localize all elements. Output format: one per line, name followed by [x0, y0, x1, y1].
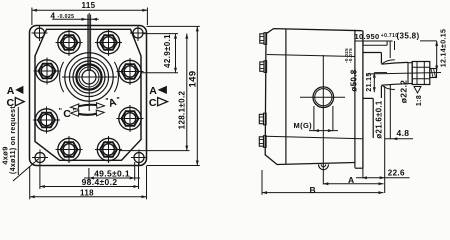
- svg-text:1:8: 1:8: [416, 95, 423, 106]
- drain plug: [319, 164, 329, 169]
- svg-text:": ": [59, 108, 63, 115]
- key slot lines: [87, 15, 89, 72]
- svg-text:A: A: [7, 85, 15, 97]
- svg-text:C: C: [149, 97, 157, 109]
- svg-text:128.1±0.2: 128.1±0.2: [178, 90, 187, 129]
- svg-text:": ": [73, 109, 77, 116]
- dim 49.5: [88, 168, 90, 181]
- svg-text:4xø9: 4xø9: [1, 146, 10, 165]
- pilot boss o50.8: [363, 53, 381, 139]
- housing octagon: [35, 29, 141, 160]
- svg-text:98.4±0.2: 98.4±0.2: [82, 177, 118, 187]
- housing chamfer line lower: [266, 136, 363, 139]
- bolt left-upper: [34, 58, 61, 85]
- svg-text:C: C: [63, 108, 71, 120]
- svg-text:4.8: 4.8: [397, 128, 410, 138]
- svg-text:149: 149: [187, 71, 198, 88]
- leader to corner hole: [13, 159, 39, 182]
- svg-text:A: A: [149, 85, 157, 97]
- side bolt 4: [259, 136, 266, 148]
- dim 98.4: [39, 163, 41, 189]
- svg-text:ø22.2: ø22.2: [399, 80, 409, 104]
- side bolt 1: [260, 33, 267, 45]
- port centerline extension to A dim: [322, 131, 324, 185]
- shaft taper cone: [381, 62, 408, 85]
- label underline: [17, 107, 19, 175]
- shaft centerline vertical: [88, 13, 90, 111]
- bolt bottom-right: [95, 136, 122, 163]
- dim B: [261, 170, 263, 195]
- svg-text:21.15: 21.15: [366, 72, 373, 91]
- shaft centerline: [366, 73, 441, 75]
- svg-text:12.14±0.15: 12.14±0.15: [441, 29, 448, 67]
- corner hole top-right: [130, 25, 146, 41]
- port arrow right C (open): [158, 98, 168, 106]
- rotation arrow lower: [78, 113, 98, 114]
- svg-text:ø50.8: ø50.8: [349, 69, 358, 91]
- svg-text:-0.075: -0.075: [348, 48, 353, 63]
- shaft boss arcs: [60, 62, 119, 92]
- port circle: [313, 87, 334, 108]
- shaft nut: [412, 62, 430, 85]
- dim 12.14: [420, 40, 437, 42]
- washer: [408, 63, 412, 84]
- threaded tip: [430, 69, 437, 78]
- port centerlines: [322, 55, 324, 131]
- rotation arrow upper: [78, 105, 98, 107]
- svg-text:B: B: [310, 185, 317, 195]
- bolt top-right: [95, 29, 122, 56]
- taper 1:8 (rotated): [414, 87, 421, 94]
- bolt top-left: [56, 29, 83, 56]
- shaft flare curves: [382, 60, 395, 90]
- flange outline: [30, 26, 147, 166]
- svg-text:": ": [116, 97, 120, 104]
- svg-text:M(G): M(G): [294, 121, 313, 130]
- svg-text:10.950: 10.950: [355, 32, 380, 41]
- shaft concentric circles: [65, 53, 113, 101]
- bolt right-lower: [117, 105, 144, 132]
- svg-text:42.9±0.1: 42.9±0.1: [163, 34, 172, 68]
- bolt bottom-left: [56, 136, 83, 163]
- port arrow left A (filled): [15, 86, 23, 94]
- svg-text:115: 115: [82, 1, 96, 10]
- bolt right-upper: [117, 58, 144, 85]
- port arrow left C (open): [15, 98, 24, 106]
- body outline: [265, 29, 362, 165]
- flange plate: [354, 30, 356, 168]
- svg-text:(4xø11) on request: (4xø11) on request: [10, 106, 17, 174]
- svg-text:ø21.6±0.1: ø21.6±0.1: [375, 100, 384, 139]
- side bolt 2: [260, 61, 267, 73]
- svg-text:118: 118: [80, 189, 94, 198]
- corner hole top-left: [32, 25, 48, 41]
- port arrow right A (filled): [158, 86, 167, 94]
- dim 149: [196, 26, 198, 165]
- corner hole bottom-right: [131, 150, 147, 166]
- housing chamfer line upper: [267, 55, 355, 57]
- dim 42.9: [175, 34, 177, 73]
- side bolt 3: [259, 113, 266, 125]
- dim 128.1: [186, 34, 188, 151]
- dim 115: [32, 9, 147, 11]
- bolt left-lower: [33, 107, 60, 134]
- svg-text:22.6: 22.6: [388, 169, 405, 178]
- dim A: [323, 183, 383, 185]
- dim 118: [29, 166, 31, 199]
- shaft centerline horizontal: [62, 76, 117, 78]
- svg-text:A: A: [348, 175, 355, 185]
- corner hole bottom-left: [32, 150, 48, 166]
- svg-text:(35.8): (35.8): [397, 32, 420, 41]
- back cover joint: [285, 29, 287, 164]
